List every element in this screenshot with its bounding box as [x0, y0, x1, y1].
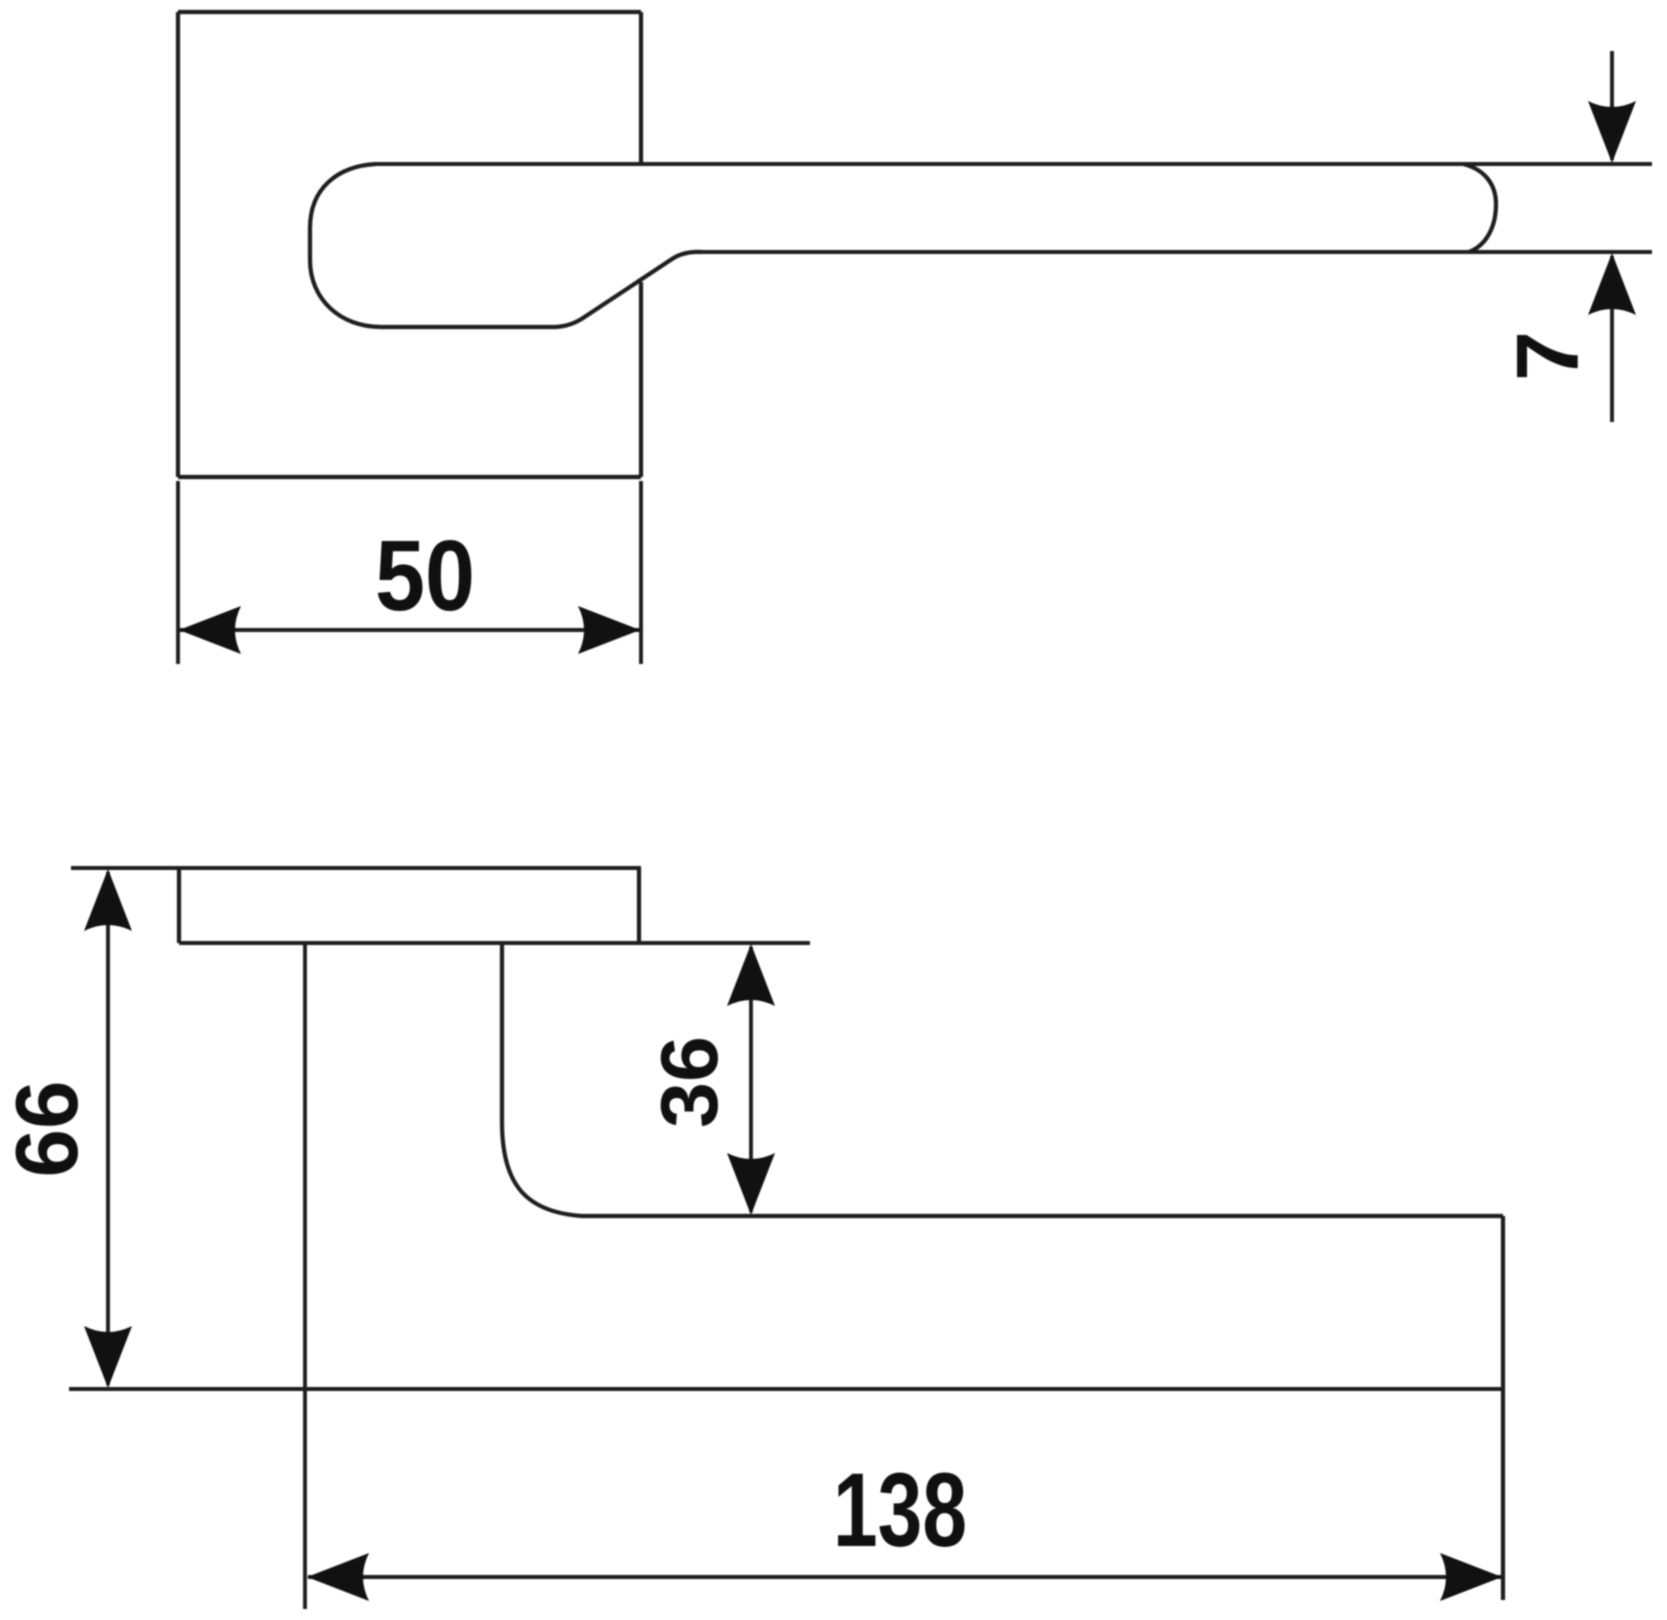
svg-text:66: 66 — [0, 1081, 96, 1178]
svg-text:36: 36 — [645, 1036, 735, 1128]
svg-text:138: 138 — [833, 1452, 967, 1569]
svg-text:7: 7 — [1498, 331, 1597, 381]
svg-text:50: 50 — [375, 520, 475, 632]
